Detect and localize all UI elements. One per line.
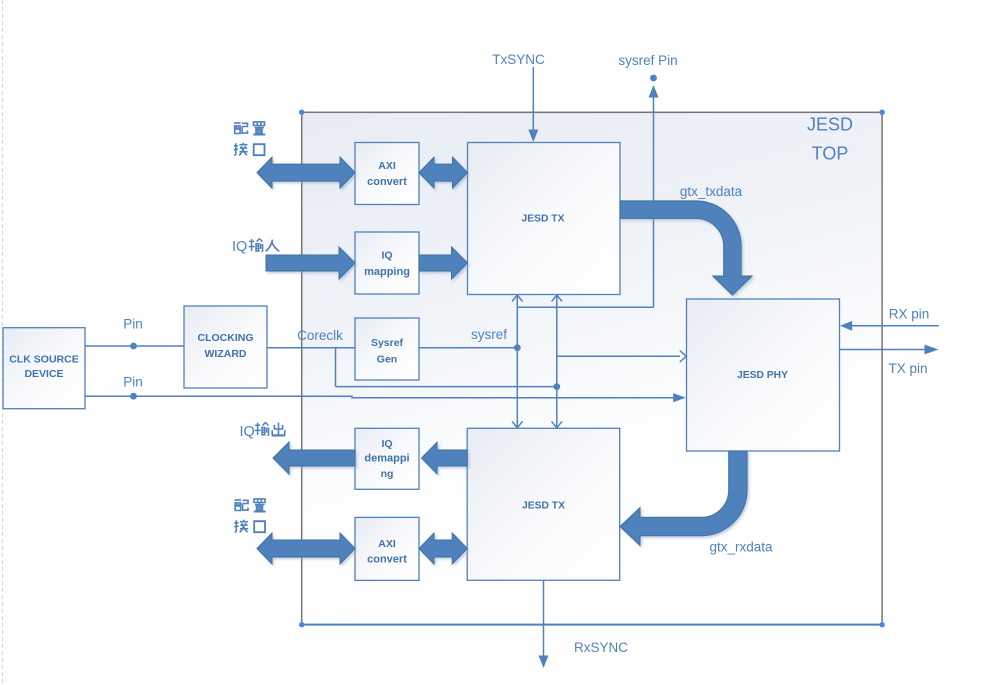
svg-text:RX pin: RX pin [889, 306, 930, 321]
svg-text:TOP: TOP [812, 144, 849, 164]
svg-text:WIZARD: WIZARD [205, 348, 247, 360]
svg-text:AXI: AXI [378, 160, 396, 172]
svg-text:sysref Pin: sysref Pin [618, 53, 677, 68]
svg-text:Sysref: Sysref [371, 337, 404, 349]
svg-text:JESD: JESD [807, 115, 853, 135]
svg-text:mapping: mapping [364, 266, 410, 278]
svg-text:Gen: Gen [377, 353, 397, 365]
svg-text:convert: convert [367, 176, 407, 188]
svg-text:Coreclk: Coreclk [297, 328, 343, 343]
svg-text:demappi: demappi [364, 453, 409, 465]
svg-text:IQ: IQ [240, 424, 255, 440]
svg-text:TxSYNC: TxSYNC [492, 52, 545, 67]
svg-text:Pin: Pin [123, 375, 143, 390]
svg-text:convert: convert [367, 554, 407, 566]
svg-text:RxSYNC: RxSYNC [574, 640, 628, 655]
svg-text:ng: ng [381, 468, 394, 480]
svg-text:gtx_txdata: gtx_txdata [680, 184, 743, 199]
svg-text:CLK SOURCE: CLK SOURCE [9, 354, 78, 366]
svg-text:JESD PHY: JESD PHY [737, 370, 788, 381]
svg-text:gtx_rxdata: gtx_rxdata [709, 540, 773, 555]
svg-text:JESD TX: JESD TX [522, 214, 565, 225]
svg-text:AXI: AXI [378, 538, 396, 550]
svg-text:IQ: IQ [381, 250, 392, 262]
svg-text:IQ: IQ [232, 239, 247, 255]
svg-text:CLOCKING: CLOCKING [198, 332, 254, 344]
svg-text:DEVICE: DEVICE [24, 368, 63, 380]
svg-text:Pin: Pin [123, 317, 143, 332]
svg-text:JESD TX: JESD TX [522, 501, 565, 512]
svg-text:TX pin: TX pin [888, 361, 927, 376]
svg-text:sysref: sysref [471, 327, 507, 342]
svg-text:IQ: IQ [381, 438, 392, 450]
